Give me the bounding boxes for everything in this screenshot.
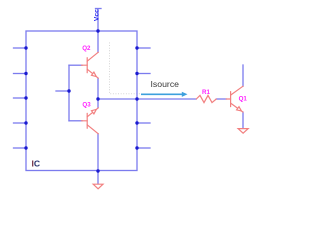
svg-text:Vcc: Vcc	[94, 9, 101, 21]
svg-text:Q3: Q3	[82, 101, 91, 108]
svg-text:Q1: Q1	[239, 95, 248, 102]
svg-text:R1: R1	[202, 89, 210, 96]
svg-text:Isource: Isource	[151, 79, 180, 89]
svg-text:IC: IC	[32, 159, 41, 169]
svg-text:Q2: Q2	[82, 45, 91, 52]
